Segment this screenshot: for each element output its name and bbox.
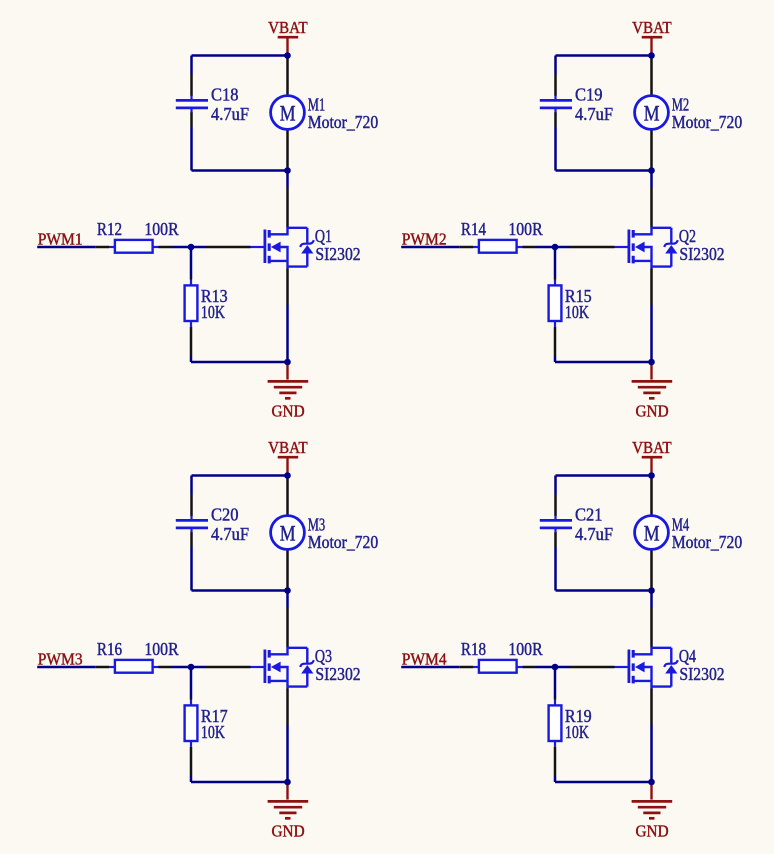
wire cap branch upper vertical <box>554 476 557 517</box>
wire top horizontal (VBAT to cap branch) <box>556 474 652 477</box>
svg-text:GND: GND <box>272 402 305 421</box>
wire ground rail horizontal <box>191 361 288 364</box>
node motor/cap junction <box>648 167 655 174</box>
svg-text:R14: R14 <box>461 219 486 239</box>
wire PWM1 input <box>37 246 109 249</box>
transistor Q4 SI2302 <box>615 648 678 689</box>
ground <box>632 362 673 421</box>
wire pulldown to ground rail <box>554 327 557 362</box>
label R19 value <box>565 706 592 742</box>
label C19 value <box>575 84 613 123</box>
motor M1 Motor_720 <box>271 96 305 130</box>
node VBAT junction <box>284 52 291 59</box>
svg-text:Q3: Q3 <box>315 646 332 666</box>
node motor/cap junction <box>284 587 291 594</box>
node ground junction <box>284 359 291 366</box>
svg-text:GND: GND <box>636 402 669 421</box>
svg-text:M: M <box>280 520 296 545</box>
svg-text:100R: 100R <box>508 639 543 659</box>
node VBAT junction <box>648 52 655 59</box>
svg-text:R12: R12 <box>97 219 122 239</box>
svg-text:C18: C18 <box>211 84 239 104</box>
svg-text:4.7uF: 4.7uF <box>575 104 613 124</box>
power VBAT (Q2 cell) <box>632 18 672 53</box>
node motor/cap junction <box>284 167 291 174</box>
label Q1 SI2302 <box>315 226 361 264</box>
node VBAT junction <box>284 472 291 479</box>
wire motor to MOSFET drain <box>286 549 289 647</box>
ground <box>632 782 673 841</box>
wire top horizontal (VBAT to cap branch) <box>192 54 288 57</box>
resistor R13 10K <box>185 280 198 327</box>
power VBAT (Q3 cell) <box>268 438 308 473</box>
net label PWM1 <box>38 230 83 249</box>
svg-text:M: M <box>644 520 660 545</box>
svg-text:R16: R16 <box>97 639 122 659</box>
svg-text:10K: 10K <box>565 722 589 742</box>
ground <box>268 782 309 841</box>
wire MOSFET source to ground junction <box>650 269 653 363</box>
wire gate node to pulldown <box>190 667 193 700</box>
wire gate node to pulldown <box>554 247 557 280</box>
label C18 value <box>211 84 249 123</box>
node ground junction <box>284 779 291 786</box>
svg-text:Q1: Q1 <box>315 226 332 246</box>
wire PWM4 input <box>401 666 473 669</box>
capacitor C20 4.7uF <box>176 516 208 533</box>
svg-text:M: M <box>644 100 660 125</box>
resistor R17 10K <box>185 700 198 747</box>
wire ground rail horizontal <box>555 361 652 364</box>
capacitor C21 4.7uF <box>540 516 572 533</box>
wire cap loop bottom horizontal <box>192 589 288 592</box>
svg-text:GND: GND <box>272 822 305 841</box>
resistor R12 100R <box>109 240 159 253</box>
wire VBAT junction to motor <box>650 476 653 516</box>
svg-text:4.7uF: 4.7uF <box>211 104 249 124</box>
svg-text:M: M <box>280 100 296 125</box>
net label PWM3 <box>38 650 83 669</box>
label R12 value <box>97 219 179 239</box>
node VBAT junction <box>648 472 655 479</box>
wire gate node horizontal <box>159 666 251 669</box>
wire VBAT junction to motor <box>286 476 289 516</box>
wire gate node to pulldown <box>554 667 557 700</box>
wire PWM2 input <box>401 246 473 249</box>
wire cap branch lower vertical <box>190 532 193 591</box>
svg-text:100R: 100R <box>144 639 179 659</box>
wire gate node to pulldown <box>190 247 193 280</box>
svg-text:10K: 10K <box>565 302 589 322</box>
node gate junction <box>188 664 195 671</box>
svg-text:SI2302: SI2302 <box>679 664 724 684</box>
svg-text:10K: 10K <box>201 302 225 322</box>
wire cap branch lower vertical <box>554 112 557 171</box>
svg-text:VBAT: VBAT <box>632 438 672 457</box>
resistor R14 100R <box>473 240 523 253</box>
label R18 value <box>461 639 543 659</box>
wire MOSFET source to ground junction <box>650 689 653 783</box>
wire motor to MOSFET drain <box>650 129 653 227</box>
wire top horizontal (VBAT to cap branch) <box>192 474 288 477</box>
net label PWM2 <box>402 230 447 249</box>
resistor R18 100R <box>473 660 523 673</box>
wire cap loop bottom horizontal <box>556 169 652 172</box>
wire ground rail horizontal <box>191 781 288 784</box>
node gate junction <box>552 244 559 251</box>
svg-text:Q4: Q4 <box>679 646 696 666</box>
wire ground rail horizontal <box>555 781 652 784</box>
label R16 value <box>97 639 179 659</box>
net label PWM4 <box>402 650 447 669</box>
label R17 value <box>201 706 228 742</box>
svg-text:SI2302: SI2302 <box>679 244 724 264</box>
svg-text:SI2302: SI2302 <box>315 244 360 264</box>
label M3 Motor_720 <box>308 514 379 552</box>
wire cap branch upper vertical <box>190 476 193 517</box>
wire MOSFET source to ground junction <box>286 269 289 363</box>
motor M2 Motor_720 <box>635 96 669 130</box>
svg-text:4.7uF: 4.7uF <box>575 524 613 544</box>
svg-text:VBAT: VBAT <box>632 18 672 37</box>
wire PWM3 input <box>37 666 109 669</box>
svg-text:100R: 100R <box>144 219 179 239</box>
svg-text:R18: R18 <box>461 639 486 659</box>
wire motor to MOSFET drain <box>650 549 653 647</box>
label Q2 SI2302 <box>679 226 725 264</box>
node gate junction <box>552 664 559 671</box>
svg-text:GND: GND <box>636 822 669 841</box>
label Q4 SI2302 <box>679 646 725 684</box>
label M2 Motor_720 <box>672 94 743 132</box>
transistor Q2 SI2302 <box>615 228 678 269</box>
label R15 value <box>565 286 592 322</box>
capacitor C18 4.7uF <box>176 96 208 113</box>
wire top horizontal (VBAT to cap branch) <box>556 54 652 57</box>
wire pulldown to ground rail <box>190 747 193 782</box>
svg-text:C19: C19 <box>575 84 603 104</box>
svg-text:VBAT: VBAT <box>268 438 308 457</box>
label C21 value <box>575 504 613 543</box>
label M4 Motor_720 <box>672 514 743 552</box>
svg-text:10K: 10K <box>201 722 225 742</box>
svg-text:SI2302: SI2302 <box>315 664 360 684</box>
wire gate node horizontal <box>523 666 615 669</box>
svg-text:100R: 100R <box>508 219 543 239</box>
node ground junction <box>648 359 655 366</box>
label C20 value <box>211 504 249 543</box>
svg-text:4.7uF: 4.7uF <box>211 524 249 544</box>
wire cap branch lower vertical <box>190 112 193 171</box>
transistor Q1 SI2302 <box>251 228 314 269</box>
capacitor C19 4.7uF <box>540 96 572 113</box>
svg-text:Motor_720: Motor_720 <box>672 532 743 552</box>
wire pulldown to ground rail <box>190 327 193 362</box>
wire VBAT junction to motor <box>650 56 653 96</box>
svg-text:Motor_720: Motor_720 <box>308 112 379 132</box>
resistor R16 100R <box>109 660 159 673</box>
wire cap branch upper vertical <box>190 56 193 97</box>
svg-text:Motor_720: Motor_720 <box>308 532 379 552</box>
wire MOSFET source to ground junction <box>286 689 289 783</box>
wire cap branch lower vertical <box>554 532 557 591</box>
node gate junction <box>188 244 195 251</box>
svg-text:C21: C21 <box>575 504 603 524</box>
wire cap branch upper vertical <box>554 56 557 97</box>
svg-text:VBAT: VBAT <box>268 18 308 37</box>
wire motor to MOSFET drain <box>286 129 289 227</box>
node motor/cap junction <box>648 587 655 594</box>
label R13 value <box>201 286 228 322</box>
svg-text:Motor_720: Motor_720 <box>672 112 743 132</box>
wire pulldown to ground rail <box>554 747 557 782</box>
wire gate node horizontal <box>523 246 615 249</box>
resistor R19 10K <box>549 700 562 747</box>
wire gate node horizontal <box>159 246 251 249</box>
label M1 Motor_720 <box>308 94 379 132</box>
resistor R15 10K <box>549 280 562 327</box>
power VBAT (Q1 cell) <box>268 18 308 53</box>
svg-text:C20: C20 <box>211 504 239 524</box>
wire VBAT junction to motor <box>286 56 289 96</box>
label Q3 SI2302 <box>315 646 361 684</box>
power VBAT (Q4 cell) <box>632 438 672 473</box>
motor M3 Motor_720 <box>271 516 305 550</box>
ground <box>268 362 309 421</box>
svg-text:Q2: Q2 <box>679 226 696 246</box>
motor M4 Motor_720 <box>635 516 669 550</box>
transistor Q3 SI2302 <box>251 648 314 689</box>
label R14 value <box>461 219 543 239</box>
wire cap loop bottom horizontal <box>556 589 652 592</box>
wire cap loop bottom horizontal <box>192 169 288 172</box>
node ground junction <box>648 779 655 786</box>
